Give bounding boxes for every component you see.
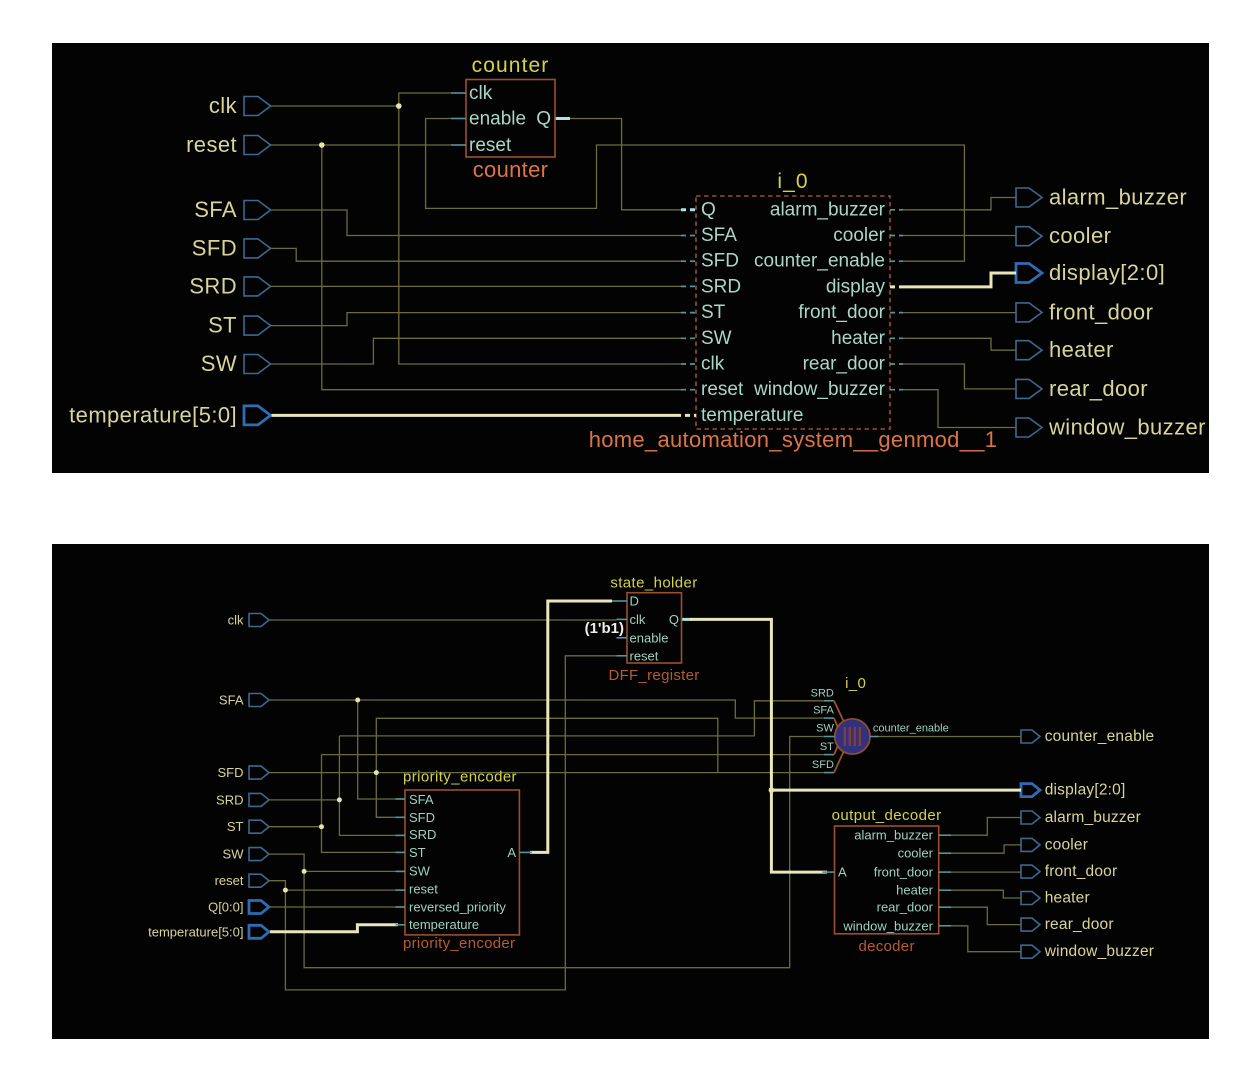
input port reset (b) [215,873,269,888]
i_0 pin front_door stub [890,312,903,314]
wire reset net (b) [269,656,617,990]
svg-text:ST: ST [227,819,244,834]
svg-text:SRD: SRD [811,687,834,699]
svg-text:clk: clk [209,93,238,118]
DFF pin clk stub [617,618,628,620]
wire SRD net (b) [269,701,824,836]
output port window_buzzer (b) [1021,943,1154,960]
gate pin ST [820,741,838,755]
junction ST (b) [319,824,324,829]
svg-text:cooler: cooler [1045,836,1088,853]
i_0 pin display stub [890,285,904,288]
bottom schematic panel [52,544,1209,1039]
wire front_door net (b) [951,871,1021,873]
svg-text:i_0: i_0 [845,675,866,692]
svg-text:SFD: SFD [192,235,237,260]
svg-text:front_door: front_door [1045,863,1118,880]
svg-text:reset: reset [469,135,512,156]
bus wire temperature net (b) [270,925,398,932]
wire reset net [271,145,681,390]
svg-text:SRD: SRD [189,273,237,298]
gate pin SFD [812,752,844,773]
svg-text:rear_door: rear_door [803,354,886,375]
module output_decoder decoder [832,807,942,955]
wire SFA net (b) [269,700,824,799]
svg-text:clk: clk [469,83,493,104]
input port SRD (b) [216,792,269,807]
svg-text:reset: reset [186,132,237,157]
bus wire DFF.Q display net [682,619,1022,872]
decoder pin window_buzzer stub [939,925,951,927]
svg-text:A: A [838,865,847,880]
svg-text:reset: reset [409,882,438,897]
wire alarm_buzzer net [903,198,1016,210]
input port SRD [189,273,270,298]
i_0 pin cooler stub [890,235,903,237]
svg-text:ST: ST [409,845,426,860]
input port SFD (b) [218,765,270,780]
output bus port display[2:0] (b) [1021,782,1126,799]
wire alarm_buzzer net (b) [951,818,1021,836]
DFF pin reset stub [617,655,628,657]
output port front_door [1016,299,1153,324]
output port rear_door (b) [1021,916,1114,933]
priority_encoder pin temperature stub [396,924,406,926]
svg-text:counter_enable: counter_enable [1045,728,1155,745]
DFF pin D stub [612,600,627,602]
svg-text:front_door: front_door [1049,299,1153,324]
svg-text:Q: Q [701,199,716,220]
output port heater [1016,337,1114,362]
svg-text:reset: reset [630,649,659,664]
counter pin clk stub [451,92,466,94]
svg-text:cooler: cooler [833,225,885,246]
svg-text:alarm_buzzer: alarm_buzzer [1045,809,1141,826]
svg-text:i_0: i_0 [777,170,808,193]
svg-text:window_buzzer: window_buzzer [753,379,886,400]
decoder pin rear_door stub [939,906,951,908]
DFF pin enable stub [617,637,628,639]
input bus port Q[0:0] [208,900,269,915]
svg-text:alarm_buzzer: alarm_buzzer [770,199,886,220]
svg-text:Q: Q [669,612,679,627]
module state_holder DFF_register [608,575,699,685]
svg-text:counter_enable: counter_enable [754,251,885,272]
i_0 pin Q stub [681,208,696,211]
decoder pin A stub [822,871,834,873]
junction display net (b) [769,787,775,793]
i_0 pin SFD stub [681,260,696,262]
i_0 pin reset stub [681,389,696,391]
priority_encoder pin reset stub [396,889,406,891]
input bus port temperature[5:0] [69,402,270,427]
svg-text:counter: counter [472,54,550,77]
svg-text:Q[0:0]: Q[0:0] [208,900,243,915]
i_0 pin window_buzzer stub [890,389,903,391]
svg-text:heater: heater [1049,337,1114,362]
output port rear_door [1016,376,1148,401]
svg-text:cooler: cooler [898,846,934,861]
i_0 pin ST stub [681,312,696,314]
gate pin SRD [811,687,844,721]
svg-text:rear_door: rear_door [1045,916,1114,933]
wire clk net [271,93,681,364]
output port front_door (b) [1021,863,1117,880]
i_0 pin counter_enable stub [890,260,903,262]
i_0 pin SFA stub [681,235,696,237]
svg-text:priority_encoder: priority_encoder [403,935,515,952]
input port ST [208,313,271,338]
priority_encoder pin SFA stub [396,798,406,800]
svg-text:SFD: SFD [812,759,834,771]
svg-text:window_buzzer: window_buzzer [842,918,933,933]
priority_encoder pin SW stub [396,870,406,872]
svg-text:SW: SW [223,847,245,862]
wire ST net [271,313,681,326]
priority_encoder pin SRD stub [396,834,406,836]
svg-text:display[2:0]: display[2:0] [1049,260,1165,285]
junction SRD (b) [337,797,342,802]
svg-text:SW: SW [701,328,732,349]
gate pin SW [816,723,835,737]
input port ST (b) [227,819,269,834]
module priority_encoder [403,769,519,953]
svg-text:output_decoder: output_decoder [832,807,942,824]
svg-text:rear_door: rear_door [877,900,934,915]
input port SW (b) [223,847,269,862]
wire rear_door net [903,364,1016,389]
top schematic panel [52,43,1209,473]
i_0 pin rear_door stub [890,363,903,365]
svg-text:temperature[5:0]: temperature[5:0] [69,402,237,427]
svg-text:priority_encoder: priority_encoder [403,769,517,786]
svg-text:counter: counter [473,157,548,182]
gate i_0 reduce-or cell [835,675,870,754]
wire counter_enable feedback net [426,119,965,262]
svg-text:SFA: SFA [701,225,737,246]
svg-text:display[2:0]: display[2:0] [1045,782,1126,799]
decoder pin heater stub [939,889,951,891]
wire counter_enable net (b) [879,736,1022,738]
svg-text:SFD: SFD [409,810,435,825]
i_0 pin temperature stub [676,414,696,417]
output port cooler [1016,223,1111,248]
module i_0 home_automation_system__genmod__1 [589,170,998,452]
svg-text:SW: SW [409,864,431,879]
svg-text:alarm_buzzer: alarm_buzzer [854,828,933,843]
priority_encoder pin A stub [519,851,532,853]
counter pin reset stub [451,144,466,146]
svg-text:(1'b1): (1'b1) [585,620,624,637]
counter pin enable stub [451,118,466,120]
wire heater net (b) [951,890,1021,898]
i_0 pin SW stub [681,337,696,339]
wire SW net [271,338,681,364]
wire front_door net [903,312,1016,314]
wire window_buzzer net [903,390,1016,428]
wire SFD net [271,248,681,261]
wire Q net counter to i_0 [555,119,681,210]
svg-text:state_holder: state_holder [610,575,697,592]
decoder pin alarm_buzzer stub [939,834,951,836]
svg-text:enable: enable [630,631,669,646]
svg-text:enable: enable [469,109,526,130]
bus wire state D net priority_encoder.A to DFF.D [530,601,612,852]
svg-text:temperature: temperature [701,405,803,426]
svg-text:heater: heater [896,883,934,898]
svg-text:SFA: SFA [813,705,834,717]
svg-text:ST: ST [701,302,726,323]
wire heater net [903,338,1016,350]
gate output counter_enable [870,723,949,737]
gate pin SFA [813,705,838,728]
decoder pin front_door stub [939,871,951,873]
input bus port temperature[5:0] (b) [148,924,269,939]
priority_encoder pin reversed_priority stub [396,906,406,908]
svg-text:decoder: decoder [858,938,914,955]
output port alarm_buzzer [1016,185,1187,210]
svg-text:SFA: SFA [194,197,237,222]
svg-text:SFA: SFA [219,693,244,708]
svg-text:SW: SW [201,351,237,376]
svg-text:heater: heater [831,328,886,349]
svg-text:heater: heater [1045,890,1090,907]
bus wire temperature net [272,414,677,417]
junction reset (b) [283,888,288,893]
svg-text:clk: clk [701,354,725,375]
input port SFA [194,197,270,222]
input port reset [186,132,271,157]
junction reset [319,142,325,148]
svg-text:DFF_register: DFF_register [608,667,699,684]
svg-text:reset: reset [215,873,244,888]
svg-text:SFD: SFD [218,765,244,780]
input port SW [201,351,271,376]
output port cooler (b) [1021,836,1088,853]
svg-text:alarm_buzzer: alarm_buzzer [1049,185,1187,210]
input port clk [209,93,271,118]
svg-text:home_automation_system__genmod: home_automation_system__genmod__1 [589,427,998,452]
svg-text:temperature[5:0]: temperature[5:0] [148,924,243,939]
wire SFA net [271,210,681,236]
svg-text:front_door: front_door [874,865,934,880]
svg-text:SRD: SRD [216,792,243,807]
svg-text:SRD: SRD [701,276,741,297]
wire cooler net [903,235,1016,237]
output port heater (b) [1021,890,1090,907]
svg-text:Q: Q [536,109,551,130]
wire SRD net [271,285,681,287]
input port SFD [192,235,271,260]
wire cooler net (b) [951,845,1021,853]
decoder pin cooler stub [939,852,951,854]
wire ST net (b) [269,755,824,853]
svg-text:window_buzzer: window_buzzer [1044,943,1154,960]
svg-text:clk: clk [228,613,244,628]
i_0 pin clk stub [681,363,696,365]
svg-text:clk: clk [630,612,646,627]
svg-text:front_door: front_door [798,302,885,323]
junction SW (b) [302,869,307,874]
i_0 pin heater stub [890,337,903,339]
svg-text:counter_enable: counter_enable [873,723,949,735]
i_0 pin alarm_buzzer stub [890,209,903,211]
i_0 pin SRD stub [681,285,696,287]
module counter U1 [466,54,555,182]
bus wire display net [904,273,1016,287]
svg-text:SRD: SRD [409,827,436,842]
svg-text:reset: reset [701,379,744,400]
input port SFA (b) [219,693,269,708]
svg-text:cooler: cooler [1049,223,1111,248]
svg-text:reversed_priority: reversed_priority [409,899,506,914]
svg-text:temperature: temperature [409,917,479,932]
wire SFD net (b) [269,718,824,817]
priority_encoder pin ST stub [396,851,406,853]
priority_encoder pin SFD stub [396,816,406,818]
output port alarm_buzzer (b) [1021,809,1141,826]
svg-text:ST: ST [208,313,237,338]
svg-text:SFA: SFA [409,792,434,807]
wire rear_door net (b) [951,907,1021,924]
svg-text:SFD: SFD [701,251,739,272]
wire SW net (b) [269,737,824,968]
svg-text:D: D [630,594,639,609]
wire clk net (b) [269,619,617,621]
output port window_buzzer [1016,415,1206,440]
junction SFA (b) [355,698,360,703]
svg-text:SW: SW [816,723,834,735]
wire window_buzzer net (b) [951,926,1021,952]
wire Q[0:0] net (b) [269,906,405,908]
svg-text:display: display [826,276,886,297]
svg-text:ST: ST [820,741,834,753]
output bus port display[2:0] [1016,260,1165,285]
svg-text:A: A [507,845,516,860]
svg-text:rear_door: rear_door [1049,376,1148,401]
svg-text:window_buzzer: window_buzzer [1048,415,1206,440]
output port counter_enable (b) [1021,728,1154,745]
junction SFD (b) [374,770,379,775]
junction clk [396,103,402,109]
input port clk (b) [228,613,269,628]
